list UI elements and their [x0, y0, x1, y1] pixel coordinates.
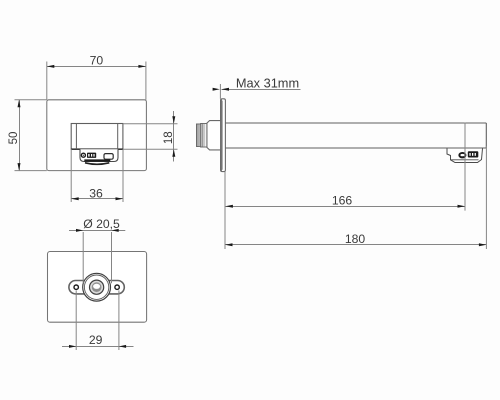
spout body side — [225, 123, 486, 148]
svg-text:Max 31mm: Max 31mm — [236, 75, 299, 90]
dimension 70 — [47, 54, 146, 100]
wall plate side — [221, 99, 226, 172]
flange obround — [69, 281, 124, 294]
svg-text:166: 166 — [332, 193, 353, 207]
dimension Ø 20,5 — [69, 217, 125, 283]
dimension 180 — [225, 146, 486, 249]
svg-text:Ø 20,5: Ø 20,5 — [83, 217, 120, 231]
right screw hole — [114, 284, 120, 290]
central mount circles — [83, 273, 111, 301]
inlet mid section — [201, 124, 207, 148]
svg-text:18: 18 — [163, 131, 175, 144]
dimension 29 — [62, 290, 134, 350]
left screw hole — [73, 284, 79, 290]
wall plate front — [47, 100, 147, 171]
aerator side — [447, 149, 483, 163]
svg-text:50: 50 — [8, 132, 20, 145]
svg-text:36: 36 — [89, 186, 103, 200]
svg-text:180: 180 — [345, 232, 366, 246]
back plate — [48, 252, 147, 323]
dimension 50 — [8, 100, 47, 171]
dimension 18 — [123, 111, 178, 162]
spout underside front — [80, 149, 118, 164]
dimension 166 — [225, 123, 465, 250]
Max 31mm dimension — [213, 75, 301, 99]
inlet end cap — [197, 124, 201, 147]
inlet cylinder — [207, 121, 221, 150]
dimension 36 — [71, 149, 123, 202]
spout front rectangle — [71, 124, 123, 150]
svg-text:70: 70 — [90, 54, 104, 68]
svg-text:29: 29 — [89, 333, 103, 347]
